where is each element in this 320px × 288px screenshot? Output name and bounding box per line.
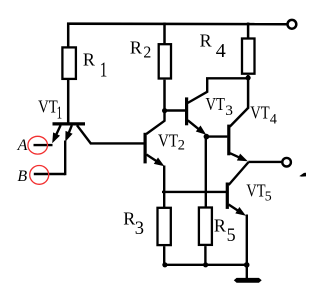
transistor VT3 base bar <box>185 97 188 125</box>
svg-text:3: 3 <box>135 219 144 239</box>
wire R3 to bottom rail <box>163 246 165 265</box>
label output cut letter <box>299 173 306 177</box>
svg-text:VT: VT <box>250 103 270 123</box>
wire bottom rail <box>164 264 247 266</box>
svg-text:R: R <box>130 38 142 58</box>
wire R4 to VT4 collector <box>247 75 250 109</box>
wire mid rail <box>162 191 226 193</box>
transistor VT4 collector <box>230 108 249 127</box>
transistor VT5 collector <box>229 162 249 185</box>
node R3 bottom <box>162 262 167 267</box>
svg-text:3: 3 <box>225 103 233 119</box>
transistor VT1 emitter 1 <box>54 125 61 140</box>
ground <box>234 278 262 283</box>
transistor VT2 base bar <box>144 133 147 164</box>
transistor VT5 emitter <box>229 205 241 213</box>
wire VT3 base <box>165 109 186 111</box>
svg-text:VT: VT <box>38 97 58 117</box>
svg-text:1: 1 <box>100 58 108 82</box>
svg-text:B: B <box>17 168 27 185</box>
wire R1 stem <box>67 23 70 48</box>
wire R2 stem <box>163 23 166 45</box>
wire VT1 emitter2 down <box>64 141 66 176</box>
wire VT1 collector to VT2 base <box>90 142 144 144</box>
svg-text:R: R <box>83 49 95 69</box>
transistor VT5 base bar <box>226 183 229 209</box>
wire ground stem <box>246 265 248 279</box>
resistor R1 <box>62 47 76 79</box>
svg-text:1: 1 <box>57 103 63 123</box>
node A input wire <box>34 144 53 146</box>
svg-text:2: 2 <box>178 138 185 154</box>
svg-text:VT: VT <box>158 131 178 151</box>
wire R1 to VT1 base <box>67 80 70 124</box>
svg-text:VT: VT <box>246 181 265 201</box>
transistor VT1 emitter 2 <box>67 125 72 138</box>
wire top power rail <box>67 22 288 25</box>
transistor VT2 collector <box>146 111 164 135</box>
wire VT4 base <box>206 135 227 137</box>
transistor VT1 collector <box>77 125 91 143</box>
svg-text:VT: VT <box>206 94 226 114</box>
wire VT3 emitter to R5 <box>205 137 207 207</box>
svg-text:2: 2 <box>143 42 151 61</box>
svg-text:R: R <box>214 215 226 235</box>
wire R4 stem <box>247 23 250 39</box>
transistor VT3 emitter <box>188 120 201 131</box>
node B input wire <box>34 173 65 175</box>
wire output node to terminal <box>248 161 282 163</box>
wire R5 to bottom rail <box>204 246 206 265</box>
wire R3 stem <box>163 192 165 207</box>
node VT3 emitter junction <box>204 134 210 140</box>
svg-text:R: R <box>200 30 212 50</box>
wire R2 to node <box>163 80 166 111</box>
resistor R2 <box>159 44 171 78</box>
transistor VT3 collector wire to R4 node <box>188 78 247 103</box>
wire VT5 emitter down <box>246 215 248 266</box>
svg-text:R: R <box>123 209 135 229</box>
node R2-VT2-VT3 junction <box>162 108 167 113</box>
node R5 bottom <box>203 262 208 267</box>
svg-text:5: 5 <box>227 226 236 246</box>
svg-text:4: 4 <box>270 111 278 127</box>
resistor R4 <box>242 39 255 74</box>
node A marker <box>28 136 48 154</box>
node ground junction <box>244 262 250 268</box>
terminal output <box>282 158 291 167</box>
node R4 junction <box>246 75 251 80</box>
resistor R3 <box>158 208 171 245</box>
terminal top-right <box>288 20 297 29</box>
svg-text:A: A <box>17 137 28 154</box>
transistor VT4 base bar <box>227 125 230 156</box>
transistor VT1 base bar <box>53 122 86 125</box>
transistor VT2 emitter <box>146 155 160 164</box>
wire VT2 emitter down <box>163 166 165 194</box>
resistor R5 <box>199 208 212 245</box>
svg-text:5: 5 <box>265 188 272 203</box>
node B marker <box>30 166 49 185</box>
transistor VT4 emitter <box>230 153 243 159</box>
svg-text:4: 4 <box>216 40 226 62</box>
